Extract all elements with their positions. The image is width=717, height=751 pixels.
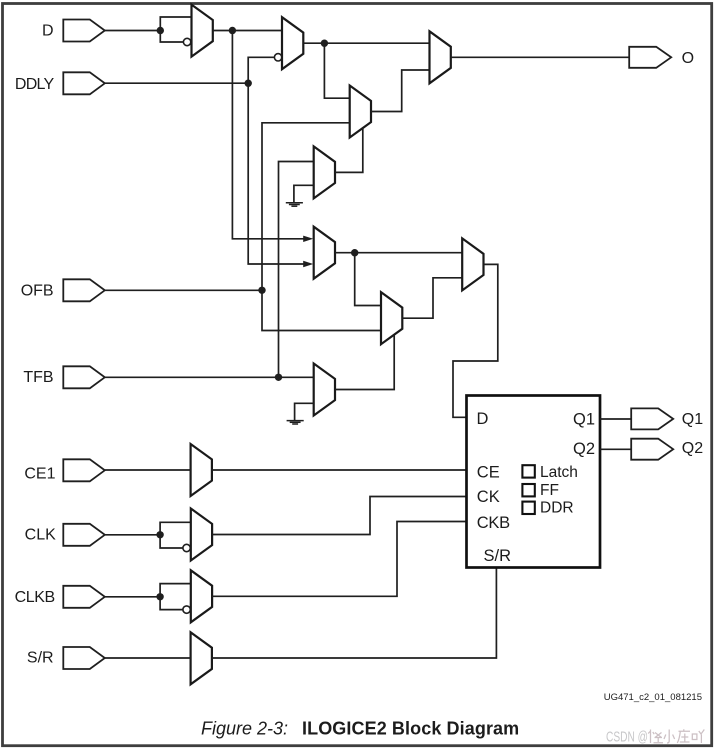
mux M12 for CLKB (191, 570, 212, 622)
input port S/R (63, 647, 105, 669)
wire OFB vertical down to mux M7 lower input (262, 290, 381, 330)
svg-text:UG471_c2_01_081215: UG471_c2_01_081215 (604, 692, 702, 703)
node A junction on D wire (157, 27, 164, 34)
svg-text:DDLY: DDLY (15, 76, 55, 93)
svg-text:D: D (42, 22, 54, 39)
svg-text:S/R: S/R (27, 650, 54, 667)
svg-text:CLKB: CLKB (15, 589, 55, 606)
node B junction (229, 27, 236, 34)
arrowhead into mux M6 lower input (303, 261, 313, 267)
mux M13 for S/R (191, 632, 212, 684)
input port CLKB (63, 586, 105, 608)
wire node C up to mux M2 inverted input (248, 57, 274, 83)
wire node B down to mux M6 upper input (232, 31, 304, 239)
svg-text:Q2: Q2 (573, 440, 595, 458)
inversion bubble mux M2 (274, 54, 281, 61)
watermark hanzi glyph 4 (692, 730, 704, 744)
wire CLK to node H (105, 534, 160, 536)
ground stub wire for mux M5 (294, 185, 314, 202)
wire DDLY to node C (105, 82, 248, 84)
wire node F down to mux M7 upper input (355, 253, 381, 306)
mux M2 (D / DDLY) (282, 17, 303, 69)
svg-text:CSDN @: CSDN @ (606, 729, 648, 746)
ground symbol G2 (287, 421, 304, 424)
wire mux M13 output to register block S/R input (212, 568, 497, 658)
input port TFB (63, 366, 105, 388)
wire mux M10 output to register block CE input (212, 469, 466, 471)
node I junction (156, 593, 163, 600)
ground stub wire for mux M9 (295, 403, 314, 420)
wire S/R to mux M13 (105, 657, 191, 659)
wire mux M5 output into mux M3 bottom edge (335, 128, 363, 172)
mux M1 (D / D-inverted) (192, 5, 213, 57)
svg-text:Q2: Q2 (682, 440, 703, 457)
wire mux M7 output to mux M8 lower input (402, 278, 462, 318)
checkbox DDR (522, 502, 534, 514)
wire mux M9 output into mux M7 bottom edge (335, 335, 394, 389)
wire register block Q2 to output port Q2 (600, 448, 631, 450)
svg-text:CK: CK (477, 488, 500, 506)
wire node A to mux M1 true input (160, 17, 191, 31)
wire mux M3 output to mux M4 lower input (371, 70, 430, 112)
wire node H to mux M11 inverted input (160, 535, 183, 548)
svg-text:Figure 2-3:: Figure 2-3: (201, 718, 288, 738)
wire node H to mux M11 true input (160, 522, 191, 535)
svg-text:TFB: TFB (23, 369, 53, 386)
svg-text:CLK: CLK (25, 526, 56, 543)
node H junction (156, 531, 163, 538)
svg-text:D: D (477, 410, 489, 428)
svg-text:O: O (682, 50, 694, 67)
node E junction on OFB wire (258, 287, 265, 294)
wire CLKB to node I (105, 596, 160, 598)
svg-text:CKB: CKB (477, 514, 510, 532)
wire mux M11 output to register block CK input (212, 497, 466, 535)
svg-text:CE: CE (477, 464, 500, 482)
watermark hanzi glyph 1 (648, 730, 663, 744)
node D2 junction (321, 40, 328, 47)
wire OFB to node E (105, 289, 262, 291)
output port O (629, 47, 671, 68)
wire mux M8 output to register block D input (453, 264, 498, 417)
svg-text:Latch: Latch (540, 464, 578, 481)
svg-text:DDR: DDR (540, 499, 574, 516)
wire D to node A (105, 30, 160, 32)
node F junction (351, 249, 358, 256)
input port DDLY (63, 72, 105, 94)
wire TFB vertical up to mux M5 upper input (279, 162, 314, 378)
mux M8 (462, 238, 483, 290)
ILOGIC register block (467, 396, 601, 568)
mux M4 (430, 31, 451, 83)
mux M7 (381, 292, 402, 344)
inversion bubble mux M1 (183, 38, 190, 45)
checkbox FF (522, 484, 534, 496)
inversion bubble mux M12 (183, 606, 190, 613)
wire node I to mux M12 true input (160, 584, 191, 597)
input port D (63, 20, 105, 42)
wire mux M1 output to node B and mux M2 (213, 30, 282, 32)
svg-text:CE1: CE1 (24, 465, 55, 482)
svg-text:Q1: Q1 (573, 410, 595, 428)
wire register block Q1 to output port Q1 (600, 418, 631, 420)
svg-text:ILOGICE2 Block Diagram: ILOGICE2 Block Diagram (302, 718, 519, 738)
wire node A to mux M1 inverted input (160, 31, 183, 43)
input port CLK (63, 524, 105, 546)
input port CE1 (63, 459, 105, 481)
ground symbol G1 (286, 203, 303, 206)
watermark hanzi glyph 3 (677, 729, 690, 743)
output port Q2 (631, 439, 673, 460)
mux M6 (two arrow inputs) (314, 227, 335, 279)
svg-text:Q1: Q1 (682, 411, 703, 428)
mux M5 (grounded input) (314, 146, 335, 198)
wire mux M6 output to node F and mux M8 upper input (335, 252, 462, 254)
wire node D2 down to mux M3 upper input (324, 43, 349, 98)
mux M3 (350, 86, 371, 138)
input port OFB (63, 279, 105, 301)
inversion bubble mux M11 (183, 544, 190, 551)
node G junction on TFB wire (275, 374, 282, 381)
svg-text:FF: FF (540, 482, 559, 499)
mux M11 for CLK (191, 509, 212, 561)
watermark hanzi glyph 2 (664, 730, 675, 744)
checkbox Latch (522, 465, 534, 477)
wire mux M2 output to node D2 and mux M4 upper input (303, 42, 429, 44)
node C junction on DDLY wire (245, 80, 252, 87)
mux M10 for CE1 (191, 444, 212, 496)
wire node C down to mux M6 lower input (248, 83, 304, 264)
wire node I to mux M12 inverted input (160, 597, 183, 610)
wire TFB to mux M9 upper input (105, 376, 314, 378)
wire OFB vertical up to mux M3 lower input (262, 123, 350, 290)
wire CE1 to mux M10 (105, 469, 191, 471)
mux M9 (grounded input) (314, 364, 335, 416)
svg-text:S/R: S/R (484, 547, 512, 565)
output port Q1 (631, 408, 673, 429)
arrowhead into mux M6 upper input (303, 236, 313, 242)
wire mux M4 output to O port (451, 56, 629, 58)
wire mux M12 output to register block CKB input (212, 522, 466, 597)
svg-text:OFB: OFB (21, 283, 54, 300)
